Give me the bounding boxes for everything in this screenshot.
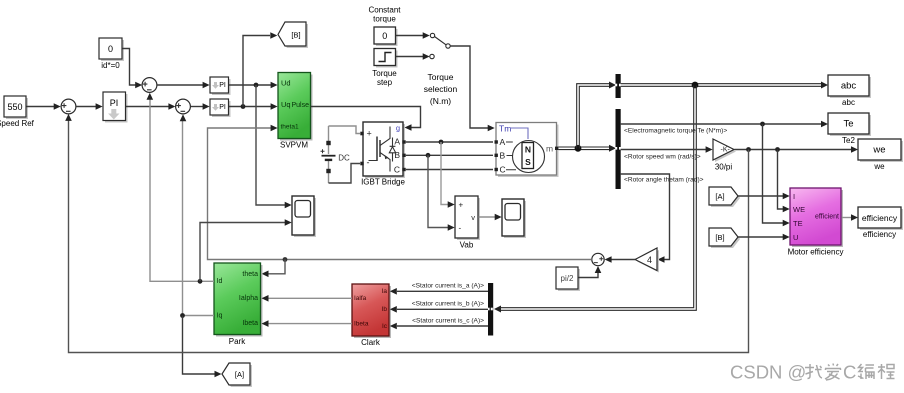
wire Iq output with feedback xyxy=(183,118,215,316)
svg-text:Ibeta: Ibeta xyxy=(242,320,258,327)
svg-text:id*=0: id*=0 xyxy=(101,61,120,70)
wire speed feedback we xyxy=(69,118,749,353)
wire SVPVM Pulse to IGBT g xyxy=(311,107,421,128)
wire stator current c xyxy=(397,325,488,327)
svg-text:abc: abc xyxy=(841,81,857,92)
svg-text:Torque: Torque xyxy=(428,72,454,82)
svg-text:step: step xyxy=(377,78,393,87)
svg-text:A: A xyxy=(500,137,506,147)
svg-text:we: we xyxy=(872,145,885,156)
svg-text:Ud: Ud xyxy=(281,79,291,88)
svg-text:efficiency: efficiency xyxy=(863,230,896,239)
wire stator current b xyxy=(397,308,488,310)
PMSM machine block xyxy=(495,123,559,178)
svg-text:U: U xyxy=(793,233,798,242)
svg-text:v: v xyxy=(471,213,475,222)
svg-text:0: 0 xyxy=(108,44,113,54)
wire efficient to outport xyxy=(842,217,853,219)
wire Ud branch to scope input 1 xyxy=(256,85,285,205)
wire d sum to PI d xyxy=(157,84,203,86)
svg-text:Ialpha: Ialpha xyxy=(239,295,258,302)
svg-text:I: I xyxy=(793,192,795,201)
svg-text:C: C xyxy=(394,165,400,175)
constant block id*=0 xyxy=(99,38,124,70)
svg-text:Clark: Clark xyxy=(361,338,381,347)
svg-text:Park: Park xyxy=(229,337,246,346)
wire rotor speed to gain xyxy=(621,149,706,151)
wire constant torque to switch xyxy=(396,35,423,37)
watermark CSDN xyxy=(730,362,895,383)
sum junction q-axis xyxy=(176,99,191,114)
watermark glyph ai xyxy=(825,364,841,381)
bus wire up to selector 1 xyxy=(577,82,616,149)
wire phase B tap to Vab minus xyxy=(428,155,448,227)
Park transform block xyxy=(214,263,263,346)
svg-text:<Stator current is_b (A)>: <Stator current is_b (A)> xyxy=(412,301,484,308)
gain block 4 xyxy=(635,248,659,273)
svg-text:m: m xyxy=(546,144,553,154)
svg-text:g: g xyxy=(396,123,400,132)
wire from A to I input xyxy=(738,195,783,197)
junction node we feedback tap xyxy=(746,147,751,152)
wire Clark Ibeta to Park Ibeta xyxy=(268,323,352,325)
manual switch Torque selection xyxy=(424,33,458,106)
bus wire m output xyxy=(559,145,617,152)
junction node Iq xyxy=(180,313,185,318)
Motor efficiency block xyxy=(788,188,844,257)
svg-text:Ic: Ic xyxy=(382,323,388,330)
svg-text:<Rotor angle thetam (rad)>: <Rotor angle thetam (rad)> xyxy=(624,177,704,184)
svg-text:-: - xyxy=(367,158,370,168)
bus selector 1 xyxy=(615,74,621,98)
svg-text:Te: Te xyxy=(843,119,853,130)
outport block Te xyxy=(828,113,871,145)
wire theta branch to Park xyxy=(268,260,285,274)
svg-text:efficient: efficient xyxy=(815,214,839,221)
svg-text:theta1: theta1 xyxy=(281,124,299,131)
svg-text:-K-: -K- xyxy=(721,146,731,153)
svg-text:PI: PI xyxy=(219,104,226,111)
outport block efficiency xyxy=(858,207,903,239)
svg-text:30/pi: 30/pi xyxy=(715,163,733,172)
svg-text:selection: selection xyxy=(424,84,458,94)
svg-text:Ialfa: Ialfa xyxy=(354,295,367,302)
wire PI q to SVPVM Uq xyxy=(229,106,271,108)
bus selector 3 stator currents xyxy=(488,283,494,336)
svg-text:Ibeta: Ibeta xyxy=(354,320,369,327)
svg-text:[A]: [A] xyxy=(715,192,724,201)
svg-text:Vab: Vab xyxy=(460,241,474,250)
outport block we xyxy=(858,139,903,171)
svg-text:-: - xyxy=(459,224,462,233)
PI block d-axis small xyxy=(210,77,231,95)
svg-text:4: 4 xyxy=(647,255,652,265)
wire switch to PMSM Tm xyxy=(450,46,488,128)
bus wire down to stator currents selector xyxy=(494,86,696,313)
wire Iq branch to goto A xyxy=(183,316,216,375)
DC voltage source xyxy=(321,126,350,183)
goto tag A bottom xyxy=(222,363,252,387)
junction node phase A tap xyxy=(439,140,444,145)
sum junction theta xyxy=(592,253,604,265)
outport block abc xyxy=(828,75,871,107)
svg-text:+: + xyxy=(459,201,464,210)
svg-text:0: 0 xyxy=(382,31,387,41)
svg-text:torque: torque xyxy=(373,15,396,24)
svg-text:[B]: [B] xyxy=(715,233,724,242)
svg-text:N: N xyxy=(525,145,531,155)
PI controller block (speed) xyxy=(103,92,128,123)
wire DC minus to IGBT xyxy=(329,164,361,184)
wire Id branch to scope input 2 xyxy=(200,223,285,282)
svg-text:Motor efficiency: Motor efficiency xyxy=(788,248,844,257)
svg-text:<Stator current is_c (A)>: <Stator current is_c (A)> xyxy=(412,317,484,324)
wire Te tap to TE input xyxy=(763,124,784,223)
junction node WE tap xyxy=(775,147,780,152)
wire from B to U input xyxy=(738,236,783,238)
svg-text:abc: abc xyxy=(842,98,855,107)
svg-text:Pulse: Pulse xyxy=(291,102,309,109)
watermark glyph wo xyxy=(805,364,822,379)
watermark glyph bian xyxy=(858,364,874,379)
goto tag B top xyxy=(278,22,308,48)
wire Uq branch to goto B xyxy=(243,36,270,107)
svg-text:A: A xyxy=(394,137,400,147)
watermark glyph cheng xyxy=(878,364,895,379)
wire rotor angle to elbow xyxy=(621,174,670,260)
wire Te signal xyxy=(621,123,822,125)
svg-text:Te2: Te2 xyxy=(842,136,855,145)
svg-text:pi/2: pi/2 xyxy=(561,274,574,283)
wire PI to q sum xyxy=(126,106,169,108)
svg-text:C: C xyxy=(500,165,506,175)
wire torque step to switch xyxy=(396,56,423,58)
junction node Id xyxy=(198,279,203,284)
sum junction d-axis xyxy=(142,78,157,93)
svg-text:Ia: Ia xyxy=(382,288,388,295)
svg-text:CSDN @: CSDN @ xyxy=(730,362,806,383)
junction node phase B tap xyxy=(426,153,431,158)
svg-text:550: 550 xyxy=(7,102,22,112)
Clark transform block xyxy=(352,284,391,347)
svg-text:[B]: [B] xyxy=(291,31,300,40)
wire Clark Ialfa to Park Ialpha xyxy=(268,297,352,299)
junction node bus branch xyxy=(692,82,699,89)
svg-text:Ib: Ib xyxy=(382,306,388,313)
svg-text:TE: TE xyxy=(793,219,803,228)
junction node Te tap xyxy=(760,122,765,127)
junction node Ud xyxy=(254,83,259,88)
svg-text:B: B xyxy=(500,151,506,161)
svg-text:S: S xyxy=(525,157,531,167)
wire Id output with feedback xyxy=(150,96,214,281)
svg-text:[A]: [A] xyxy=(235,370,244,379)
from tag B xyxy=(709,228,740,248)
wire phase C xyxy=(406,169,493,171)
svg-text:+: + xyxy=(367,129,372,139)
svg-text:C: C xyxy=(843,362,856,383)
wire pi/2 to theta sum xyxy=(578,272,598,278)
SVPVM subsystem block xyxy=(278,73,313,150)
svg-text:Tm: Tm xyxy=(499,124,511,134)
svg-text:PI: PI xyxy=(110,98,119,108)
bus selector 2 xyxy=(615,109,621,189)
wire 550 to speed sum xyxy=(27,106,55,108)
PI block q-axis small xyxy=(210,99,231,117)
junction node theta to Park xyxy=(283,257,288,262)
svg-text:IGBT Bridge: IGBT Bridge xyxy=(361,178,405,187)
svg-text:SVPVM: SVPVM xyxy=(280,141,308,150)
wire phase A IGBT to motor xyxy=(406,141,493,143)
scope block Ud Id scope xyxy=(292,196,316,237)
svg-text:efficiency: efficiency xyxy=(862,213,898,223)
svg-text:Uq: Uq xyxy=(281,100,291,109)
wire phase B xyxy=(406,154,493,156)
svg-text:<Electromagnetic torque Te (N*: <Electromagnetic torque Te (N*m)> xyxy=(624,127,727,134)
wire WE tap to WE input xyxy=(778,150,784,210)
constant block Speed Ref 550 xyxy=(0,96,35,128)
voltage measurement block Vab xyxy=(455,196,480,250)
svg-text:<Rotor speed wm (rad/s)>: <Rotor speed wm (rad/s)> xyxy=(624,153,701,160)
svg-text:(N.m): (N.m) xyxy=(430,96,451,106)
svg-text:theta: theta xyxy=(242,271,258,278)
scope block Vab scope xyxy=(502,199,526,238)
junction node m bus xyxy=(575,145,582,152)
wire speed sum to PI xyxy=(76,106,96,108)
gain block 30/pi xyxy=(713,139,736,172)
wire q sum to PI q xyxy=(191,106,204,108)
svg-text:Torque: Torque xyxy=(372,69,397,78)
wire gain to we outport xyxy=(734,149,852,151)
svg-text:<Stator current is_a (A)>: <Stator current is_a (A)> xyxy=(412,283,484,290)
wire PI d to SVPVM Ud xyxy=(229,84,271,86)
wire phase A tap to Vab plus xyxy=(441,142,448,205)
svg-text:we: we xyxy=(873,162,885,171)
wire stator current a xyxy=(397,290,488,292)
constant block pi/2 xyxy=(556,267,580,291)
constant block Constant torque xyxy=(368,6,401,47)
wire id*=0 to d sum xyxy=(123,49,137,86)
step block Torque step xyxy=(372,49,397,88)
wire Vab to scope2 xyxy=(478,216,495,218)
from tag A xyxy=(709,187,740,207)
svg-text:PI: PI xyxy=(219,82,226,89)
bus wire selector1 to abc outport xyxy=(621,82,828,89)
svg-text:Speed Ref: Speed Ref xyxy=(0,119,35,128)
svg-text:Iq: Iq xyxy=(217,312,223,319)
wire DC plus to IGBT xyxy=(329,126,361,134)
wire theta net xyxy=(208,128,592,260)
svg-text:WE: WE xyxy=(793,205,805,214)
junction node Uq xyxy=(241,104,246,109)
sum junction speed xyxy=(61,99,76,114)
svg-text:Id: Id xyxy=(217,278,223,285)
wire gain4 to theta sum xyxy=(611,259,635,261)
svg-text:DC: DC xyxy=(338,154,350,163)
IGBT Bridge block xyxy=(360,122,405,187)
svg-text:Constant: Constant xyxy=(368,6,401,15)
